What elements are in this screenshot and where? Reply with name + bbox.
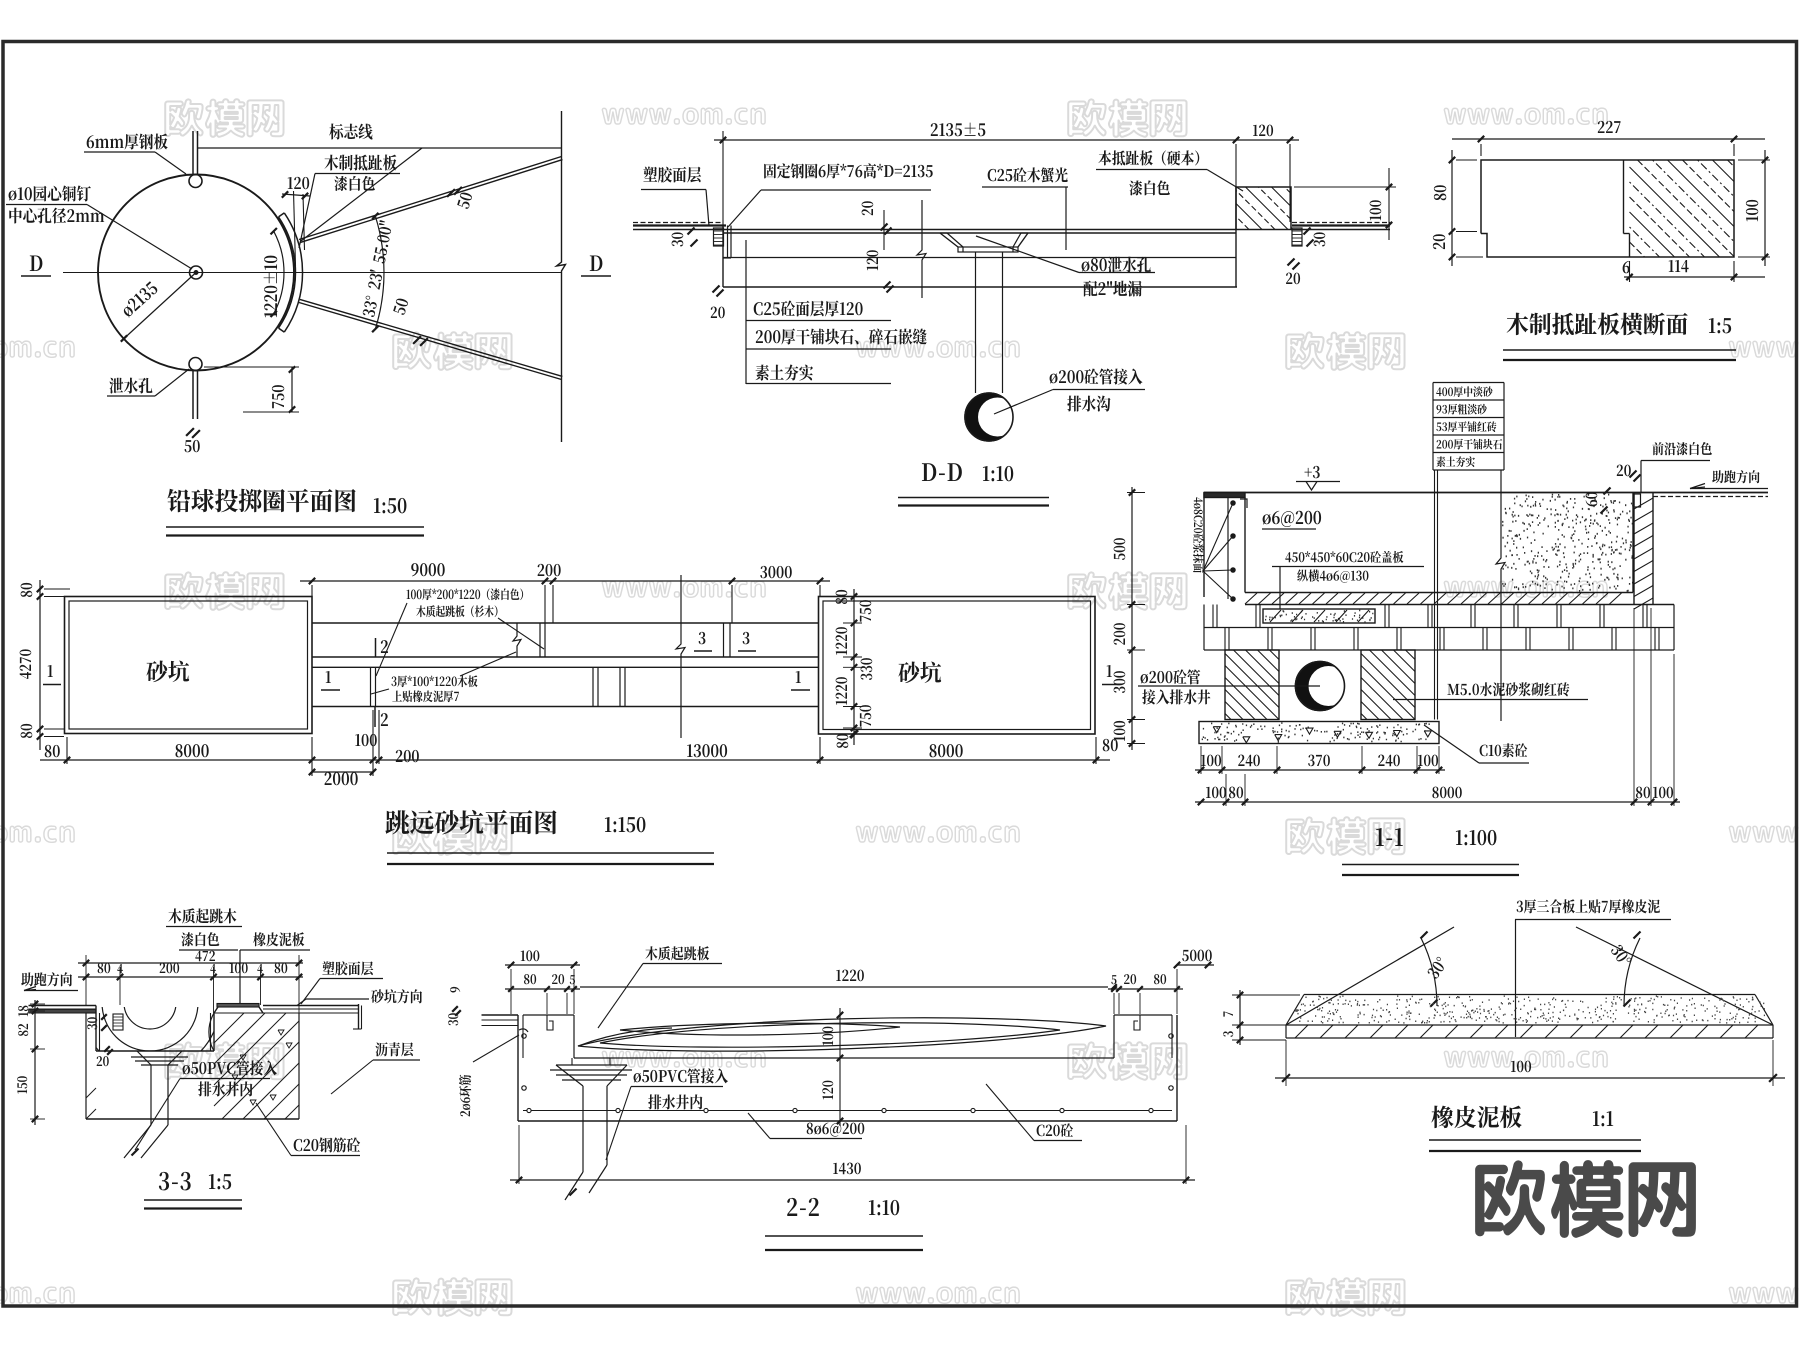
3-3 left approach surface [29, 1005, 97, 1007]
3-3 aggregate triangles [278, 1030, 284, 1035]
section marks 1 (four) [48, 665, 53, 677]
D-D fixing steel ring at left edge [727, 226, 729, 259]
D-D slab outline [723, 232, 1236, 234]
3-3 pipe elbow below [124, 1125, 151, 1158]
dim 750 below circle [291, 367, 293, 412]
radius dim text ∅2135 [120, 281, 159, 318]
toe board hatch (wood) [1630, 242, 1645, 257]
lower sector line (double) [299, 303, 562, 380]
3-3 box for take-off timber [95, 1006, 97, 1052]
label 砂坑方向 with leader [371, 989, 422, 1003]
1-1 well walls hatched [1225, 650, 1279, 720]
D-D title [922, 463, 962, 481]
label ∅6@200 [1263, 511, 1321, 527]
rubber plate slope extension lines [1286, 927, 1454, 1025]
D-D dim 30 left rotated [688, 228, 695, 235]
title 铅球投掷圈平面图 1:50 [167, 489, 355, 513]
toe board joint lines [1623, 160, 1625, 234]
2-2 drain pipe with elbow [582, 1086, 584, 1172]
1-1 left dim chain [1131, 487, 1133, 750]
3-3 extension lines [85, 955, 87, 1005]
2-2 box outline [517, 1015, 519, 1121]
leader from 泄水孔 to drain hole [155, 369, 189, 396]
toe board arc (two arcs) [279, 217, 296, 328]
label 助跑方向 with arrow [1712, 470, 1759, 483]
label 3厚三合板上贴7厚橡皮泥 [1517, 899, 1660, 913]
marking line bar above circle [192, 131, 194, 175]
leader from pin label to center [87, 205, 192, 270]
dim 60 rotated right [1604, 488, 1611, 495]
toe board left dim 80/20 [1451, 150, 1453, 266]
D-D left curb detail [714, 228, 724, 246]
1-1 foundation C10 strip [1199, 722, 1439, 744]
left anchor block in box [113, 1014, 123, 1030]
2-2 hook stirrups left [522, 1034, 526, 1038]
horizontal marking leader line [197, 147, 562, 149]
gravel hatch strip under pit [1245, 592, 1633, 594]
runway horizontal lines [312, 622, 819, 624]
2-2 title [787, 1198, 819, 1216]
notes leader columns down through section [1434, 470, 1436, 720]
right sand pit rectangle (double line) [819, 597, 1096, 735]
shot put circle - top hole [189, 175, 202, 188]
joint pair upper band x=543 [539, 623, 541, 657]
D-D pipe ball (moon symbol) [965, 393, 1013, 441]
1-1 notes stack boxes [1433, 382, 1504, 384]
2-2 ledge details right [1134, 1015, 1140, 1030]
dim 20 below box left [104, 1046, 110, 1052]
D-D dim 30 right rotated [1304, 228, 1311, 235]
anchor ties fan with dots [1203, 503, 1233, 571]
plan bottom dim row [40, 759, 1110, 761]
plywood strip with hatch [1286, 1037, 1773, 1039]
D-D dim 20 bottom left [713, 286, 720, 293]
angle arc 33 23 55 [375, 216, 384, 329]
label 砂坑 right [898, 661, 941, 683]
rubber plate body [1304, 994, 1755, 996]
upper sector line (double) [299, 157, 562, 240]
leader from 标志线 to toe board [301, 148, 422, 241]
label 标志线 [329, 124, 372, 140]
rubber plate title [1431, 1106, 1521, 1129]
dim 50 on upper sector line [447, 189, 455, 197]
rubber plate left dims 7 and 3 [1239, 990, 1241, 1045]
label 塑胶面层 (3-3) [322, 961, 373, 975]
radius line ∅2135 [124, 273, 196, 339]
2-2 dim 1430 [510, 1179, 1195, 1181]
sand pit edge (3-3) [358, 1004, 360, 1029]
sand pit right boundary [1632, 493, 1634, 593]
level mark +3 [1305, 466, 1320, 478]
label 沥青层 [375, 1042, 413, 1056]
left sand pit rectangle (double line) [65, 597, 313, 734]
D-D section center line [63, 272, 562, 274]
C20 cover slab in brick row [1263, 609, 1375, 623]
3-3 concrete body outline [86, 1012, 96, 1014]
plan top dim line 9000/200/3000 [300, 580, 830, 582]
label 砂坑 left [146, 660, 189, 682]
toe board bottom dims 6 and 114 [1624, 276, 1765, 278]
1-1 top surface line [1204, 492, 1768, 494]
marking line bar below circle [192, 370, 194, 419]
label ∅10园心铜钉 / 中心孔径2mm [9, 186, 91, 202]
label ∅200砼管 接入排水井 [1141, 669, 1201, 684]
label C25砼木蟹光 [988, 167, 1068, 182]
D-D dim 20 upper middle [881, 224, 888, 231]
angle text 33°23'55.00" [361, 220, 393, 317]
1-1 bottom dim row 1 [1195, 769, 1445, 771]
toe board section outline [1481, 160, 1734, 257]
plan dim 2000 second row [312, 771, 373, 773]
large 欧模网 watermark logo [1475, 1160, 1696, 1238]
3-3 left dim chain [34, 1000, 36, 1125]
toe board edge at wall top [1634, 494, 1641, 507]
1-1 right approach surface [1653, 496, 1768, 498]
1-1 title [1376, 828, 1403, 846]
shot put circle - center pin circle [190, 266, 203, 279]
3-3 drain funnel and pipe [137, 1051, 151, 1065]
D-D dim 120 middle rotated [867, 250, 879, 270]
D-D drain pipe [975, 252, 977, 393]
1-1 bottom dim row 2 [1195, 801, 1680, 803]
label 泄水孔 [109, 378, 152, 394]
label 8∅6@200 [807, 1123, 865, 1137]
3-3 concrete hatch [222, 1042, 299, 1119]
label 木制抵趾板 / 漆白色 [324, 155, 396, 171]
3-3 title [159, 1172, 191, 1191]
2-2 wood board grain [578, 1018, 1106, 1051]
label C20钢筋砼 (3-3) [294, 1137, 360, 1152]
label 3厚*100*1220木板 上贴橡皮泥厚7 [391, 675, 477, 687]
leader ∅200砼管接入 [994, 390, 1053, 415]
label C10素砼 [1480, 743, 1528, 757]
plasticine speckle fill [1295, 996, 1765, 1023]
rotated label 4∅8C20砼浆抹面 [1193, 497, 1204, 573]
2-2 rebar line and dots [523, 1110, 1172, 1112]
label 木质起跳板 (2-2) [645, 946, 709, 960]
1-1 right wall (brick hatched) [1633, 493, 1635, 605]
label ∅50PVC管接入 排水井内 (2-2) [634, 1068, 728, 1083]
label M5.0水泥砂浆砌红砖 [1447, 682, 1569, 696]
3-3 segment dim line 80/4/200/4/100/4/80 [78, 976, 303, 978]
watermark grid (light gray) [165, 99, 283, 137]
2-2 drain funnel [556, 1065, 583, 1086]
small hook at wall top [1240, 499, 1247, 508]
D-D drain funnel [940, 233, 958, 247]
rubber plate dim 100 [1285, 1040, 1287, 1086]
left pit vertical dim chain 80/4270/80 [39, 580, 41, 750]
label 助跑方向 (3-3) with arrow [21, 972, 72, 986]
label ∅50PVC管接入 排水井内 (3-3) [183, 1060, 277, 1075]
label C20砼 (2-2) [1037, 1123, 1073, 1136]
section marks 3 with underlines [699, 632, 706, 644]
dim 50 at bottom bar [186, 428, 194, 436]
label ∅80泄水孔 配2"地漏 [1082, 257, 1151, 273]
2-2 hook stirrups right [1169, 1034, 1173, 1038]
leader ∅80泄水孔 [976, 236, 1079, 273]
section letter D right [590, 255, 603, 271]
2-2 left approach surface [482, 1014, 519, 1016]
D-D dim extension lines [722, 131, 724, 225]
toe board dim 227 [1452, 138, 1765, 140]
dim arc 1220±10 inside circle [274, 231, 284, 314]
3-3 cut lines [723, 623, 725, 657]
2-2 dim 1220 [580, 986, 1108, 988]
2-2 extension lines top [510, 969, 512, 1014]
break jog in upper band x=517 [513, 623, 521, 657]
3-3 surface right of bump [263, 1005, 359, 1007]
2-2 ledge details left [547, 1015, 553, 1030]
D-D dim 100 right rotated [1388, 168, 1390, 240]
section letter D left [30, 255, 43, 271]
section mark 2 top [375, 638, 377, 657]
dim 50 on lower sector line [413, 336, 421, 344]
3-3 labels top [168, 908, 236, 923]
label 本抵趾板（硬本）/ 漆白色 [1098, 150, 1199, 165]
rubber bump (3-3) [214, 1006, 263, 1014]
toe board title [1507, 313, 1688, 336]
D-D dim 20 right [1288, 259, 1295, 266]
30 degree arcs [1421, 938, 1437, 1006]
joint pair lower band x=622 [619, 667, 621, 706]
D-D right curb detail [1292, 228, 1302, 246]
brick course rows [1204, 627, 1674, 629]
layer boundary line with break (x=1501) [1496, 470, 1505, 721]
D-D dim line 2135±5 and 120 [714, 139, 1299, 141]
break line with jog x=681 [676, 575, 685, 738]
leader from 木制抵趾板 to arc [299, 174, 315, 249]
take-off board joint (plan) at x=373 [370, 667, 372, 706]
D-D wooden toe board block (hatched) [1236, 187, 1291, 230]
dim 20 at front edge [1630, 471, 1637, 478]
D-D break line in slab [917, 200, 926, 298]
2-2 left dims 30/9 rotated [452, 1006, 458, 1012]
section mark 2 bottom [374, 707, 376, 728]
label 前沿漆白色 with leader [1652, 442, 1711, 455]
3-3 dim line 472 [78, 962, 303, 964]
right pit vertical dim chain [853, 589, 855, 745]
2-2 dim 100/120 rotated [839, 1008, 841, 1126]
label 塑胶面层 [643, 167, 701, 183]
1-1 pit left wall [1204, 493, 1245, 498]
label 100厚*200*1220（漆白色） 木质起跳板（杉木） [407, 588, 524, 600]
leaders for take-off board labels [376, 603, 407, 676]
plan title 跳远砂坑平面图 1:150 [385, 810, 556, 835]
D-D notes stack with leaders [745, 240, 747, 384]
dim 30 in box rotated [101, 1014, 107, 1020]
D-D left surface (rubber) lines [633, 222, 722, 224]
dim 120 above toe board [288, 177, 309, 189]
toe board right dim 100 [1764, 150, 1766, 266]
shot put circle - steel plate ring [98, 175, 294, 371]
D-D surface line full width [633, 229, 1236, 231]
label 6mm厚钢板 [87, 134, 168, 150]
leader from 6mm厚钢板 to circle top [155, 152, 186, 174]
right boundary line of sector [557, 111, 566, 442]
label 2∅6环筋 rotated [459, 1075, 471, 1117]
well interior moon (pipe) [1296, 662, 1345, 711]
sand fill dots (right part of pit) [1502, 495, 1634, 592]
labels 450*450*60C20砼盖板 / 纵横4∅6@130 [1285, 551, 1403, 563]
label 橡皮泥板 (3-3) [253, 932, 304, 946]
label 固定钢圈6厚*76高*D=2135 [764, 163, 933, 178]
D-D right surface lines [1292, 222, 1390, 224]
joint pair lower band x=595 [592, 667, 594, 706]
2-2 right top dims [1108, 988, 1183, 990]
label ∅200砼管接入 排水沟 [1050, 368, 1143, 384]
shot put circle - drain hole (bottom) [189, 358, 202, 371]
leader 橡皮泥板 to bump [238, 1003, 240, 1005]
2-2 top dim lines left [505, 964, 580, 966]
